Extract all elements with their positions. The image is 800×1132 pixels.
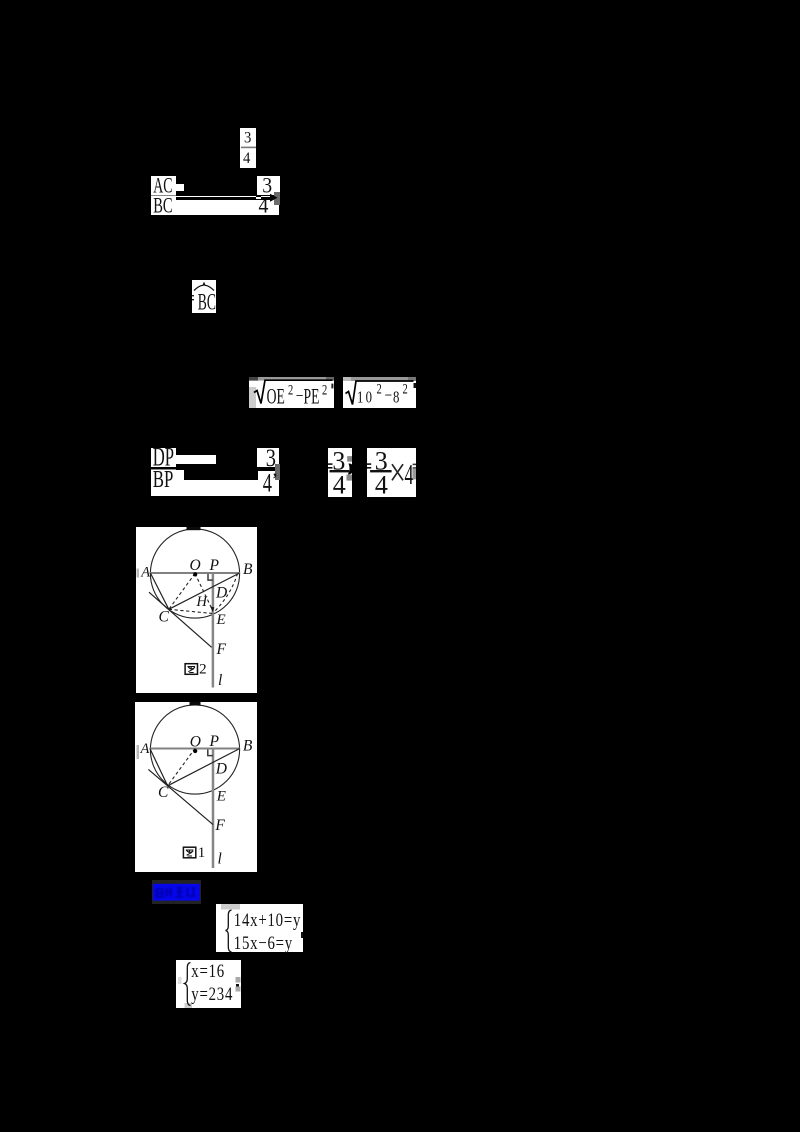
svg-text:B: B bbox=[243, 738, 253, 755]
sqrt(OE^2-PE^2) box bbox=[249, 377, 334, 408]
formula DP/BP = 3/4 : DP numerator box bbox=[151, 448, 176, 467]
svg-text:10: 10 bbox=[357, 388, 374, 406]
svg-text:P: P bbox=[209, 557, 220, 574]
svg-text:C: C bbox=[159, 609, 170, 626]
svg-text:DP: DP bbox=[153, 448, 174, 467]
svg-text:E: E bbox=[216, 612, 226, 628]
svg-text:14x+10=y: 14x+10=y bbox=[234, 909, 301, 930]
equation system {14x+10=y, 15x-6=y} box bbox=[216, 904, 303, 952]
svg-text:BC: BC bbox=[153, 196, 172, 215]
dashed CE bbox=[169, 609, 213, 613]
svg-text:2: 2 bbox=[288, 381, 293, 398]
formula AC/BC: 3/4 fraction bar bbox=[261, 197, 272, 200]
circle O bbox=[150, 705, 239, 794]
formula DP/BP: gray block right bbox=[275, 464, 280, 479]
formula DP/BP: white tab right of DP bbox=[176, 455, 216, 464]
svg-text:OE: OE bbox=[267, 384, 285, 408]
svg-text:AC: AC bbox=[153, 176, 172, 195]
dashed OC bbox=[169, 574, 195, 610]
formula AC/BC: long fraction bar bbox=[176, 197, 256, 200]
brace bbox=[184, 962, 190, 1005]
svg-text:2: 2 bbox=[403, 379, 408, 396]
comma artifact right bbox=[301, 932, 303, 938]
formula AC/BC: small white tab right of AC bbox=[176, 184, 184, 191]
svg-text:4: 4 bbox=[405, 460, 414, 491]
formula AC/BC: gray block right bbox=[274, 192, 280, 205]
formula =3/4 box bbox=[328, 448, 352, 497]
right angle mark at P bbox=[208, 750, 213, 756]
chord CB bbox=[168, 749, 240, 786]
label tu2 (Chinese) bbox=[185, 662, 207, 678]
gray tick left edge bbox=[137, 569, 140, 578]
svg-text:BP: BP bbox=[153, 470, 174, 493]
formula DP/BP: comma bbox=[273, 466, 281, 480]
diameter AB bbox=[150, 748, 241, 750]
gray tick left edge bbox=[137, 745, 140, 759]
line l vertical bbox=[212, 573, 215, 688]
svg-text:B: B bbox=[243, 561, 253, 578]
line l vertical bbox=[212, 749, 215, 869]
svg-text:15x−6=y: 15x−6=y bbox=[234, 932, 293, 953]
center dot O bbox=[193, 572, 197, 576]
svg-text:BC: BC bbox=[198, 290, 216, 313]
formula DP/BP: 4 denominator bbox=[257, 470, 280, 496]
dashed arc B to E bbox=[214, 574, 238, 613]
svg-text:O: O bbox=[190, 557, 201, 574]
formula DP/BP: gray line under DP bbox=[151, 469, 176, 471]
formula =3/4 x 4 box bbox=[367, 448, 416, 497]
smudge at circle top bbox=[187, 527, 201, 530]
arrow head near E bbox=[210, 607, 214, 612]
svg-text:F: F bbox=[216, 641, 227, 658]
formula AC/BC: numerator 3 box bbox=[257, 176, 280, 195]
svg-text:PE: PE bbox=[304, 384, 320, 408]
svg-text:C: C bbox=[158, 784, 169, 801]
svg-text:l: l bbox=[218, 672, 222, 689]
equation system {x=16, y=234} box bbox=[176, 960, 242, 1008]
svg-text:4: 4 bbox=[263, 470, 272, 496]
svg-text:1: 1 bbox=[198, 845, 206, 861]
svg-text:F: F bbox=[214, 817, 225, 834]
formula DP/BP: 3/4 fraction bar bbox=[258, 469, 275, 471]
smudge at circle top bbox=[190, 702, 201, 705]
svg-text:2: 2 bbox=[199, 662, 207, 678]
sqrt(10^2-8^2) box bbox=[343, 377, 416, 409]
figure 2 (circle diagram) bbox=[136, 527, 257, 693]
figure 1 (circle diagram) bbox=[135, 702, 257, 872]
dashed OC bbox=[168, 749, 195, 786]
formula AC/BC: equals sign bbox=[256, 195, 262, 197]
formula AC/BC = 3/4 : AC numerator box bbox=[151, 176, 176, 195]
label tu1 (Chinese) bbox=[183, 845, 205, 861]
brace bbox=[226, 910, 232, 952]
diameter AB bbox=[150, 572, 241, 574]
svg-text:D: D bbox=[215, 761, 227, 778]
formula AC/BC: arrow head bbox=[270, 193, 279, 203]
dot artifact bbox=[236, 984, 239, 987]
arc BC symbol box bbox=[192, 280, 216, 313]
svg-text:4: 4 bbox=[243, 150, 251, 168]
tangent CF bbox=[148, 769, 213, 824]
dashed OE bbox=[195, 574, 212, 609]
svg-text:8: 8 bbox=[393, 388, 399, 406]
formula DP/BP: numerator 3 box bbox=[257, 448, 279, 467]
svg-text:O: O bbox=[190, 734, 201, 751]
svg-text:−: − bbox=[385, 386, 393, 405]
svg-text:E: E bbox=[216, 789, 226, 805]
svg-text:2: 2 bbox=[377, 379, 382, 396]
formula AC/BC: gray line under AC bbox=[151, 195, 176, 197]
svg-text:A: A bbox=[140, 565, 150, 581]
svg-text:l: l bbox=[218, 851, 222, 868]
center dot O bbox=[193, 749, 197, 753]
svg-text:2: 2 bbox=[322, 381, 327, 398]
fraction 3/4 (top standalone) bbox=[240, 128, 256, 168]
chord AC bbox=[150, 573, 168, 609]
chord AC bbox=[150, 749, 168, 786]
chord CB bbox=[169, 573, 240, 609]
svg-text:H: H bbox=[196, 594, 209, 610]
svg-text:y=234: y=234 bbox=[191, 983, 233, 1004]
tangent CF bbox=[149, 592, 212, 647]
svg-text:−: − bbox=[296, 387, 304, 406]
formula DP/BP: BP text bbox=[151, 470, 191, 496]
svg-text:A: A bbox=[140, 741, 150, 757]
svg-text:,: , bbox=[273, 466, 277, 480]
svg-text:D: D bbox=[215, 585, 227, 602]
formula DP/BP: denominator band bbox=[151, 470, 279, 496]
circle O bbox=[150, 529, 239, 618]
formula AC/BC: denominator band with BC and 4 bbox=[151, 196, 279, 215]
blue highlight block bbox=[152, 880, 201, 904]
svg-text:x=16: x=16 bbox=[191, 960, 225, 981]
svg-text:4: 4 bbox=[332, 470, 345, 497]
svg-text:4: 4 bbox=[375, 470, 388, 497]
formula DP/BP: black notch over band bbox=[184, 470, 258, 479]
svg-text:3: 3 bbox=[244, 129, 252, 147]
right angle mark at P bbox=[208, 574, 213, 580]
svg-text:P: P bbox=[209, 733, 220, 750]
formula DP/BP: equals sign bbox=[253, 467, 258, 468]
